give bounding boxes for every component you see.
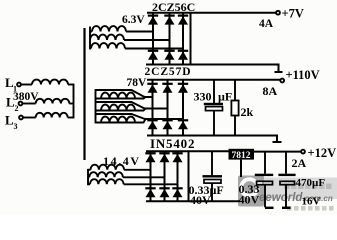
terminal +7V [276, 11, 280, 15]
capacitor 470uF wire top [285, 152, 287, 174]
bridge 2CZ57D column 3 diodes [178, 80, 188, 136]
svg-text:78V: 78V [127, 77, 148, 89]
primary terminal label L2 [6, 95, 19, 114]
svg-text:16V: 16V [302, 196, 321, 208]
terminal +110V [280, 79, 284, 83]
capacitor 0.33uF output wire bottom [264, 185, 266, 208]
bridge 2CZ57D column 2 diodes [162, 80, 172, 136]
secondary winding 14.4V row1 [88, 165, 151, 170]
resistor 2k wires [234, 80, 236, 136]
svg-text:+12V: +12V [308, 146, 337, 160]
svg-text:4A: 4A [259, 18, 274, 30]
svg-text:40V: 40V [190, 193, 211, 207]
secondary winding 78V row1 [96, 90, 154, 99]
capacitor 330uF wire bottom [213, 111, 215, 136]
secondary winding 6.3V left bus [89, 27, 91, 50]
capacitor 330uF wire top [213, 80, 215, 103]
bridge IN5402 column 3 diodes [172, 151, 182, 201]
bridge 2CZ56C column 3 diodes [178, 13, 188, 65]
bridge 2CZ56C right edge wire [190, 13, 192, 65]
svg-text:2A: 2A [292, 156, 307, 170]
secondary winding 78V row3 [96, 114, 184, 123]
ground symbol under 470uF [282, 207, 291, 209]
capacitor 0.33uF input wire bottom [211, 183, 213, 201]
secondary winding 78V left bus [95, 89, 97, 123]
secondary winding 6.3V row1 [90, 26, 153, 31]
terminal L3 [19, 116, 23, 120]
terminal +12V [301, 150, 305, 154]
secondary winding 14.4V row3 [88, 179, 178, 184]
capacitor 0.33uF input wire top [211, 151, 213, 175]
bridge rectifier 2CZ56C top rail to +7V [147, 12, 276, 14]
ground symbol under 0.33uF output [265, 207, 274, 209]
terminal L1 [17, 83, 21, 87]
bridge 2CZ57D column 1 diodes [147, 80, 157, 136]
svg-text:40V: 40V [239, 193, 260, 207]
svg-text:6.3V: 6.3V [122, 14, 145, 26]
capacitor 0.33uF output plates [255, 174, 273, 185]
bridge IN5402 column 1 diodes [145, 151, 155, 201]
svg-text:2: 2 [15, 104, 19, 113]
primary star bus wire [73, 84, 75, 119]
bridge rectifier 2CZ57D bottom rail [147, 136, 277, 142]
svg-text:2k: 2k [241, 105, 254, 119]
svg-text:IN5402: IN5402 [150, 136, 195, 151]
chassis tick at end of 2CZ57D bottom rail [273, 141, 282, 143]
capacitor 470uF wire bottom [285, 185, 287, 208]
svg-text:+7V: +7V [282, 7, 304, 21]
secondary winding 6.3V row2 [90, 35, 170, 40]
capacitor 470uF plates [278, 174, 295, 185]
svg-text:3: 3 [14, 122, 18, 131]
secondary winding 78V row2 [96, 102, 168, 111]
watermark text eeworld.com.cn [259, 192, 333, 204]
bridge rectifier 2CZ57D top rail to +110V [147, 79, 281, 81]
bridge rectifier 2CZ56C bottom rail [146, 65, 279, 72]
terminal L2 [19, 102, 23, 106]
svg-text:470µF: 470µF [296, 177, 326, 189]
bridge rectifier IN5402 top rail [146, 150, 229, 152]
secondary winding 14.4V row2 [88, 172, 165, 177]
primary terminal label L3 [5, 113, 18, 132]
transformer core [83, 28, 85, 160]
+12V output rail [254, 151, 301, 153]
svg-text:+110V: +110V [286, 68, 320, 82]
regulator 7812 ground pin [240, 160, 242, 177]
svg-text:2CZ57D: 2CZ57D [145, 66, 192, 78]
bridge 2CZ56C column 1 diodes [148, 13, 158, 65]
svg-text:8A: 8A [263, 84, 278, 98]
secondary winding 14.4V left bus [87, 169, 89, 185]
chassis tick at end of 2CZ56C bottom rail [275, 71, 283, 73]
svg-text:7812: 7812 [232, 151, 251, 161]
svg-text:µF: µF [218, 89, 232, 103]
primary winding phase L2 [23, 99, 74, 104]
bridge IN5402 column 2 diodes [159, 151, 169, 201]
svg-text:eeworld.com.cn: eeworld.com.cn [259, 192, 333, 204]
primary winding phase L3 [23, 113, 73, 118]
bridge rectifier IN5402 bottom ground rail [146, 200, 240, 202]
svg-text:330: 330 [194, 89, 212, 103]
capacitor 0.33uF output wire top [264, 152, 266, 174]
resistor 2k body [231, 101, 238, 116]
capacitor 0.33uF input plates [203, 175, 223, 183]
bridge IN5402 right edge wire [188, 151, 190, 201]
primary terminal label L1 [5, 75, 17, 94]
regulator 7812 body [229, 149, 255, 161]
watermark logo badge [238, 176, 264, 207]
primary winding phase L1 [21, 80, 73, 85]
watermark band eeworld [258, 178, 337, 211]
bridge 2CZ56C column 2 diodes [164, 13, 174, 65]
capacitor 330uF plates [204, 103, 223, 111]
secondary winding 6.3V row3 [90, 43, 183, 48]
